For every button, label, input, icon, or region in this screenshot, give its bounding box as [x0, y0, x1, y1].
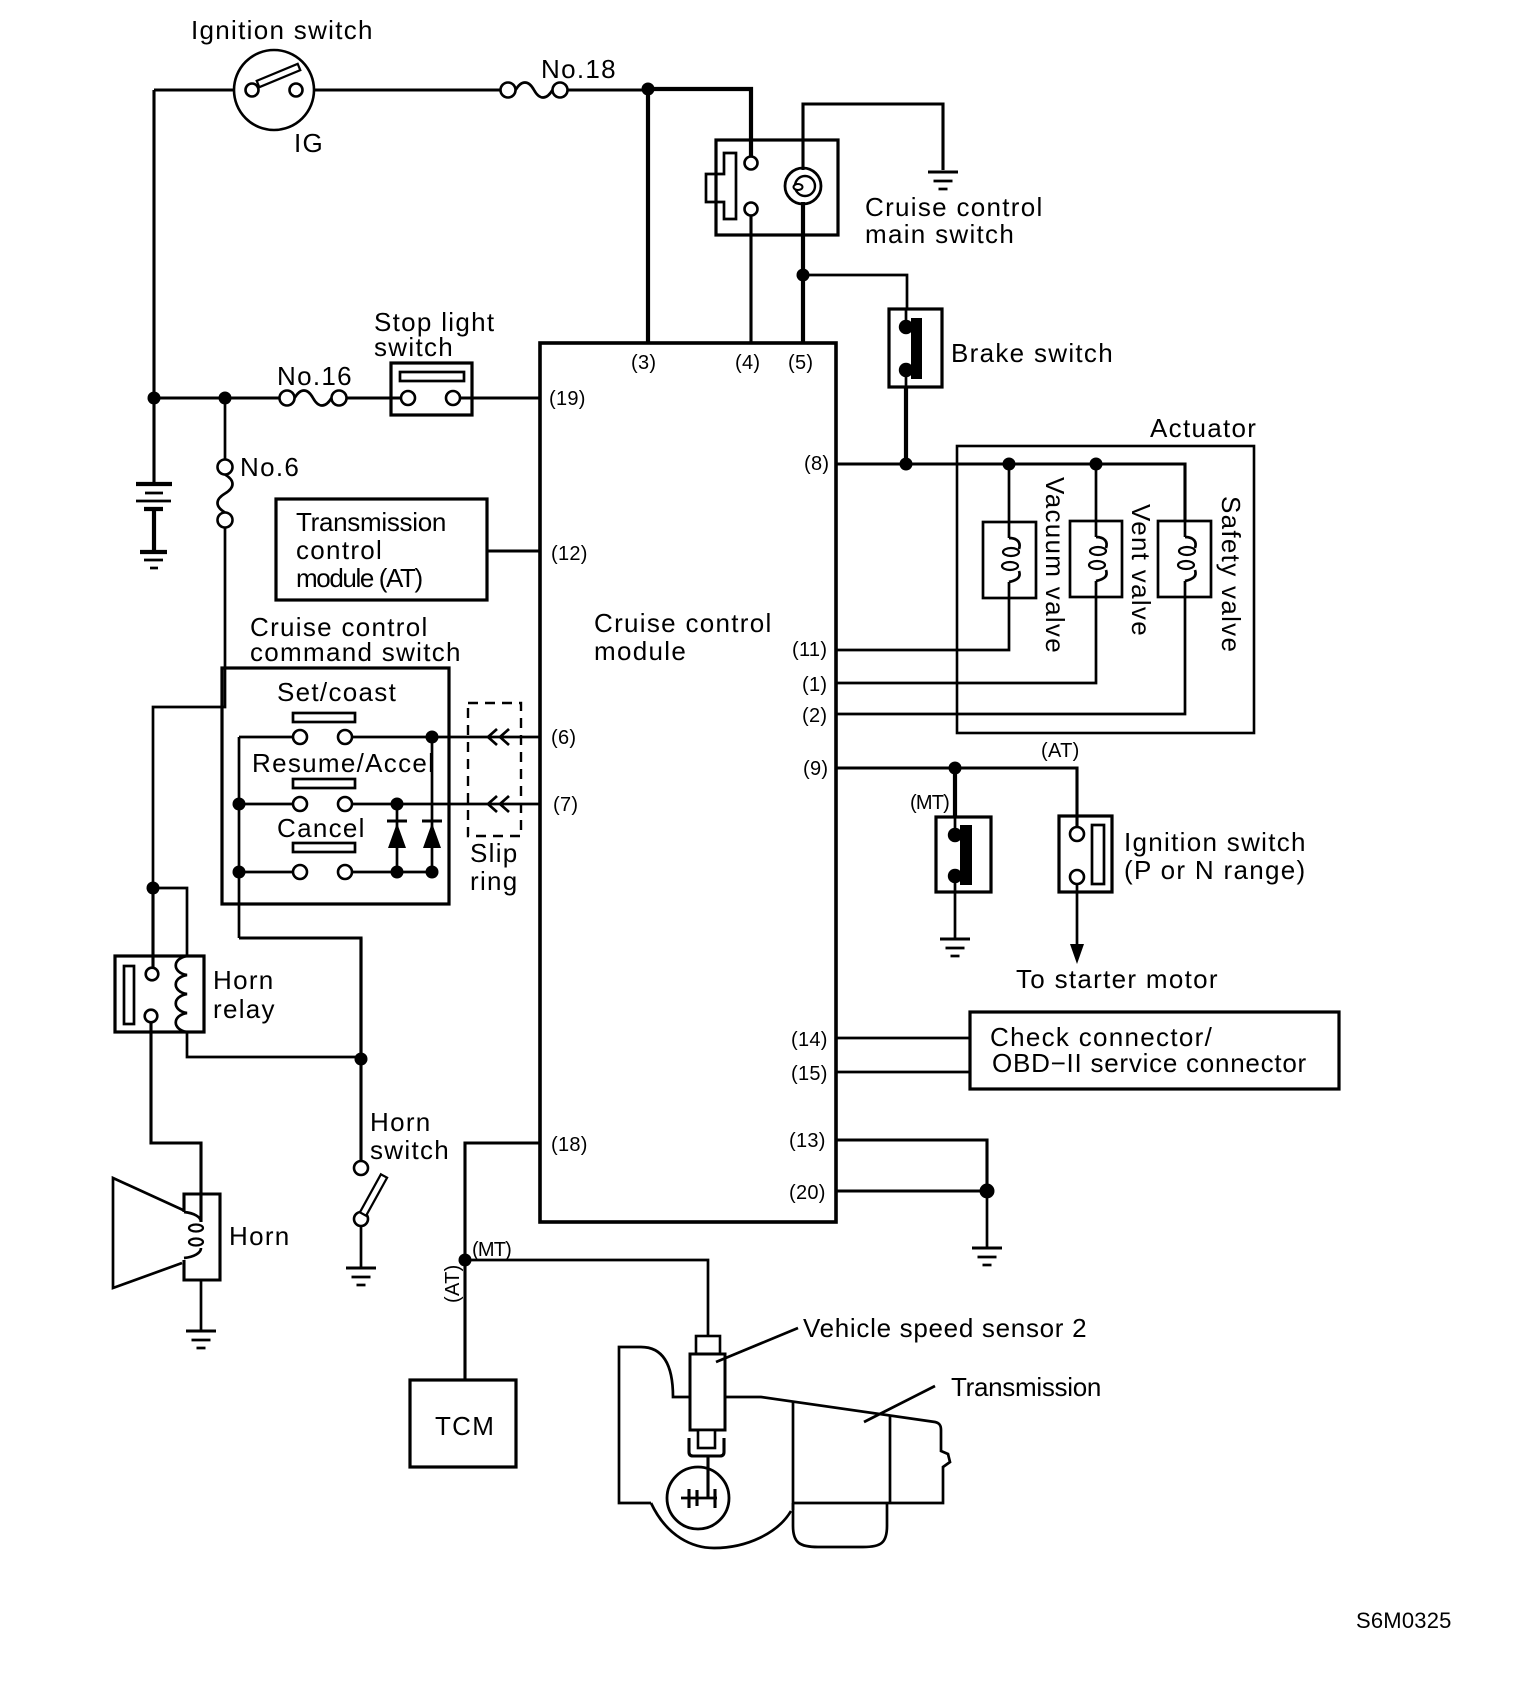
wire node Q to relay coil — [153, 888, 187, 956]
svg-text:(18): (18) — [551, 1134, 588, 1156]
ground G6 — [186, 1329, 216, 1332]
cruise control module U1 — [540, 343, 836, 1222]
svg-text:main switch: main switch — [865, 219, 1015, 249]
wire vacuum valve to pin 11 — [836, 598, 1009, 650]
svg-text:(AT): (AT) — [442, 1264, 464, 1303]
wire fuse No.18 to node A — [567, 88, 648, 91]
svg-text:Vent valve: Vent valve — [1126, 504, 1156, 637]
wire node A to pin 3 — [646, 89, 650, 343]
wire horn switch to ground G5 — [360, 1226, 363, 1267]
slip ring contact chevrons pin 7 — [488, 796, 509, 812]
wire resume right to pin 7 — [352, 803, 540, 806]
wire common rail to horn rail — [239, 938, 361, 1059]
wire brake switch to node C on pin8 net — [904, 387, 908, 464]
svg-text:(8): (8) — [804, 453, 829, 475]
svg-text:Set/coast: Set/coast — [277, 677, 397, 707]
wire set/coast left to common rail — [239, 736, 293, 739]
svg-text:(7): (7) — [553, 794, 578, 816]
svg-text:(14): (14) — [791, 1029, 828, 1051]
svg-text:Cancel: Cancel — [277, 813, 366, 843]
wire left rail to fuse No.16 — [154, 396, 280, 399]
diode D1 — [387, 804, 407, 872]
svg-text:(AT): (AT) — [1041, 740, 1080, 762]
battery ground G2 — [140, 552, 167, 568]
svg-text:command switch: command switch — [250, 637, 462, 667]
node F junction resume left — [233, 798, 246, 811]
svg-text:Horn: Horn — [229, 1221, 291, 1251]
svg-text:No.16: No.16 — [277, 361, 353, 391]
node I junction diode D1 top — [391, 798, 404, 811]
svg-text:(12): (12) — [551, 543, 588, 565]
svg-text:Cruise control: Cruise control — [594, 608, 773, 638]
svg-text:TCM: TCM — [435, 1411, 495, 1441]
wire resume left — [239, 803, 293, 806]
node D junction left rail — [148, 392, 161, 405]
wire horn to ground G6 — [200, 1280, 203, 1331]
diode D2 — [422, 737, 442, 872]
svg-text:Vehicle speed sensor 2: Vehicle speed sensor 2 — [803, 1313, 1087, 1343]
fuse No.6 — [218, 398, 233, 528]
leader line vehicle speed sensor — [716, 1328, 798, 1362]
svg-text:(3): (3) — [631, 352, 656, 374]
svg-text:Horn: Horn — [370, 1107, 432, 1137]
node J junction diode D1 bottom — [391, 866, 404, 879]
wire stop light switch to pin 19 — [460, 396, 540, 399]
slip ring dashed box — [468, 703, 521, 836]
svg-text:(MT): (MT) — [910, 792, 949, 814]
wire pin 20 net — [836, 1189, 987, 1192]
svg-text:OBD−II service connector: OBD−II service connector — [992, 1048, 1307, 1078]
brake switch S2 — [889, 309, 942, 387]
safety valve solenoid L3 — [1158, 521, 1211, 597]
wire pin 13 net — [836, 1140, 987, 1191]
indicator lamp in main switch — [785, 168, 821, 204]
wire lamp bottom to node B — [801, 202, 805, 275]
svg-text:Safety valve: Safety valve — [1216, 496, 1246, 653]
node L junction vacuum valve tap — [1003, 458, 1016, 471]
wire safety valve to pin 2 — [836, 597, 1185, 714]
check connector box — [970, 1012, 1339, 1089]
svg-text:Transmission: Transmission — [296, 507, 446, 537]
svg-text:(15): (15) — [791, 1063, 828, 1085]
wire fuse No.6 down to horn rail — [153, 527, 225, 888]
svg-text:(2): (2) — [802, 705, 827, 727]
node R junction horn switch rail — [355, 1053, 368, 1066]
svg-text:(19): (19) — [549, 388, 586, 410]
set/coast key bar — [293, 713, 355, 722]
wire to ground G4 — [986, 1191, 989, 1247]
wire common rail vertical — [238, 737, 241, 938]
wire pin 8 net — [836, 464, 1185, 521]
cruise control main switch S1 — [706, 140, 838, 235]
horn LS1 — [113, 1178, 220, 1288]
svg-text:Transmission: Transmission — [951, 1372, 1101, 1402]
actuator box — [957, 446, 1254, 733]
svg-text:No.6: No.6 — [240, 452, 300, 482]
svg-text:relay: relay — [213, 994, 276, 1024]
node C junction brake tap — [900, 458, 913, 471]
wire node B to brake switch — [803, 275, 907, 309]
leader line transmission — [864, 1386, 935, 1422]
wire relay coil to horn switch rail — [187, 1032, 361, 1057]
node G junction cancel left — [233, 866, 246, 879]
stop light switch S3 — [391, 363, 472, 415]
svg-text:(20): (20) — [789, 1182, 826, 1204]
ground G3 — [940, 937, 970, 940]
svg-text:(13): (13) — [789, 1130, 826, 1152]
gearshift circle in transmission — [667, 1457, 729, 1529]
wire TCM(AT) to pin 12 — [487, 549, 540, 552]
svg-text:No.18: No.18 — [541, 54, 617, 84]
svg-text:switch: switch — [374, 332, 454, 362]
svg-text:(5): (5) — [788, 352, 813, 374]
svg-text:(9): (9) — [803, 758, 828, 780]
node Q junction horn relay tap — [147, 882, 160, 895]
set/coast switch contacts — [293, 730, 352, 744]
svg-text:(MT): (MT) — [472, 1239, 511, 1261]
wire main switch lower terminal to pin 4 — [749, 216, 752, 343]
wire node Q to relay contact — [151, 888, 154, 968]
battery B1 — [136, 398, 172, 551]
transmission control module (AT) box — [276, 499, 487, 600]
horn relay K1 — [115, 956, 204, 1032]
svg-text:IG: IG — [294, 128, 324, 158]
TCM box — [410, 1380, 516, 1467]
wire vent valve to pin 1 — [836, 597, 1096, 683]
wire ignition switch to fuse No.18 — [314, 88, 501, 91]
horn switch S6 — [354, 1161, 387, 1226]
vent valve solenoid L2 — [1070, 521, 1122, 597]
wire pin 15 to check connector — [836, 1071, 970, 1074]
wire node B to pin 5 — [801, 275, 805, 343]
svg-text:(1): (1) — [802, 674, 827, 696]
svg-text:module (AT): module (AT) — [296, 563, 422, 593]
slip ring contact chevrons pin 6 — [488, 729, 509, 745]
wire cancel right — [352, 871, 432, 874]
wire fuse No.16 to stop light switch — [346, 396, 401, 399]
svg-text:S6M0325: S6M0325 — [1356, 1608, 1452, 1633]
wire node P to TCM — [463, 1260, 466, 1380]
transmission outline — [619, 1347, 950, 1548]
wire pin 14 to check connector — [836, 1037, 970, 1040]
wire pin 9 net — [836, 768, 1077, 827]
vehicle speed sensor 2 — [689, 1336, 725, 1456]
resume/accel key bar — [293, 779, 355, 788]
wire ignition switch left to left rail — [154, 88, 234, 91]
svg-text:switch: switch — [370, 1135, 450, 1165]
svg-text:control: control — [296, 535, 383, 565]
svg-text:module: module — [594, 636, 687, 666]
svg-text:ring: ring — [470, 866, 519, 896]
ignition switch (P or N range) S5 — [1059, 816, 1112, 892]
wire relay contact to horn — [151, 1022, 201, 1222]
node E junction fuse No.6 tap — [219, 392, 232, 405]
ignition switch body — [234, 50, 314, 130]
svg-text:To starter motor: To starter motor — [1016, 964, 1219, 994]
wire clutch switch feed — [953, 768, 957, 817]
vacuum valve solenoid L1 — [983, 522, 1036, 598]
ground G5 — [346, 1266, 376, 1269]
wire horn switch feed — [359, 938, 362, 1161]
wire left rail vertical — [152, 90, 155, 399]
wire vent valve feed — [1095, 464, 1098, 521]
wire set/coast right to pin 6 — [352, 736, 540, 739]
node N junction clutch switch tap — [949, 762, 962, 775]
svg-text:(11): (11) — [792, 639, 827, 661]
wire node P to vehicle speed sensor 2 — [465, 1260, 708, 1338]
wire lamp to ground G1 — [803, 104, 943, 170]
cancel key bar — [293, 843, 355, 852]
fuse No.18 — [501, 83, 568, 98]
svg-text:Actuator: Actuator — [1150, 413, 1257, 443]
fuse No.16 — [280, 391, 347, 406]
resume/accel switch contacts — [293, 797, 352, 811]
node O junction ground tie — [980, 1184, 995, 1199]
svg-text:Ignition switch: Ignition switch — [1124, 827, 1307, 857]
svg-text:(P or N range): (P or N range) — [1124, 855, 1306, 885]
clutch switch (MT) S4 — [936, 817, 991, 892]
wire pin 18 net — [465, 1143, 540, 1260]
node K junction diode D2 bottom — [426, 866, 439, 879]
svg-text:Vacuum valve: Vacuum valve — [1040, 477, 1070, 654]
ground G1 — [928, 170, 958, 173]
wire to starter motor — [1076, 884, 1079, 946]
wire vacuum valve feed — [1008, 464, 1011, 522]
node A junction — [642, 83, 655, 96]
ground G4 — [972, 1246, 1002, 1249]
svg-text:(4): (4) — [735, 352, 760, 374]
node P junction TCM tap — [459, 1254, 472, 1267]
svg-text:Slip: Slip — [470, 838, 519, 868]
wire clutch switch to ground G3 — [954, 892, 957, 938]
node M junction vent valve tap — [1090, 458, 1103, 471]
svg-text:(6): (6) — [551, 727, 576, 749]
svg-text:Cruise control: Cruise control — [865, 192, 1044, 222]
wire cancel left — [239, 871, 293, 874]
node H junction diode D2 top — [426, 731, 439, 744]
svg-text:Horn: Horn — [213, 965, 275, 995]
node B junction — [797, 269, 810, 282]
svg-text:Resume/Accel: Resume/Accel — [252, 748, 435, 778]
cruise control command switch box — [222, 668, 449, 904]
svg-text:Ignition switch: Ignition switch — [191, 15, 374, 45]
wire node A to main switch — [648, 89, 751, 157]
svg-text:Brake switch: Brake switch — [951, 338, 1114, 368]
arrow to starter motor — [1070, 944, 1084, 964]
cancel switch contacts — [293, 865, 352, 879]
